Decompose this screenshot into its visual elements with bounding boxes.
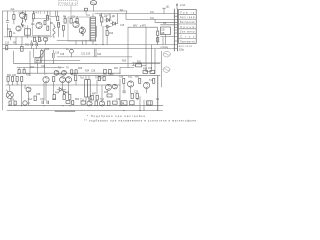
- wire bottom verticals: [8, 79, 147, 111]
- resistor R38: [96, 95, 98, 100]
- resistor R14: [157, 27, 159, 44]
- transformer T3 core: [91, 19, 96, 39]
- resistor R19: [23, 68, 25, 74]
- transistor Q1: [20, 11, 26, 22]
- svg-text:С21 0,05: С21 0,05: [81, 54, 91, 56]
- transistor Q16: [99, 101, 104, 106]
- svg-text:к АРУ: к АРУ: [140, 25, 147, 28]
- transformer T3 leads: [92, 14, 94, 45]
- resistor R22: [104, 69, 107, 74]
- transistor Q5: [58, 23, 65, 31]
- resistor R25: [150, 70, 155, 73]
- wire feedback: [132, 62, 161, 64]
- selector leads: [161, 35, 175, 45]
- resistor R54: [46, 11, 48, 20]
- resistor R6: [34, 37, 36, 41]
- selector box: [161, 27, 171, 35]
- transistor Q4: [43, 37, 47, 41]
- transformer T2 secondary coil: [81, 27, 83, 37]
- wire top cluster stubs: [50, 11, 56, 17]
- svg-text:R25: R25: [78, 68, 83, 70]
- resistor R26: [7, 77, 9, 82]
- resistor R23: [109, 69, 112, 74]
- transistor Q14: [144, 82, 150, 88]
- coil L4: [21, 21, 23, 28]
- svg-text:R47: R47: [92, 94, 97, 96]
- fuse box: [130, 101, 135, 105]
- svg-text:С25: С25: [148, 68, 153, 70]
- svg-text:** подбирают при налаживании в: ** подбирают при налаживании в усилителе…: [84, 118, 197, 122]
- resistor R36: [153, 79, 155, 84]
- svg-text:Т2: Т2: [23, 27, 26, 29]
- wire af bus 2: [40, 60, 80, 62]
- crystal Y1: [70, 49, 74, 57]
- resistor R50: [108, 101, 110, 106]
- transistor Q8: [43, 77, 49, 101]
- annotation oval A: [163, 51, 170, 57]
- resistor R13: [101, 14, 103, 27]
- svg-text:R52: R52: [75, 99, 80, 101]
- resistor R31: [75, 76, 77, 81]
- resistor R32: [98, 76, 100, 80]
- resistor R28: [16, 77, 18, 82]
- resistor R44: [9, 101, 11, 105]
- resistor R20: [71, 70, 73, 74]
- cap C8 pair: [36, 41, 37, 49]
- resistor R11: [70, 16, 72, 23]
- svg-text:R20: R20: [122, 61, 127, 63]
- svg-text:С22: С22: [97, 54, 102, 56]
- cap C34 pair: [47, 101, 48, 104]
- loudspeaker B1: [6, 85, 13, 99]
- svg-text:Т12: Т12: [149, 80, 154, 82]
- transistor Q6: [54, 70, 59, 75]
- wire lower bus A: [17, 72, 120, 74]
- svg-text:С37: С37: [40, 99, 45, 101]
- svg-text:Прием: Прием: [180, 27, 194, 29]
- wire top border: [3, 11, 128, 14]
- wire vertical V3: [146, 45, 152, 72]
- wire stair left: [14, 51, 31, 76]
- resistor R2: [25, 11, 27, 22]
- svg-text:R17: R17: [30, 67, 35, 69]
- transistor Q15: [87, 101, 92, 106]
- svg-text:R37: R37: [110, 74, 115, 76]
- wire vertical V2: [145, 27, 147, 71]
- svg-text:L1: L1: [13, 33, 16, 35]
- resistor R39 horizontal: [107, 94, 112, 97]
- svg-text:к блоку: к блоку: [161, 47, 170, 49]
- resistor R51 horizontal: [113, 101, 118, 104]
- connector rungs: [174, 14, 177, 49]
- diode ring: [106, 15, 111, 20]
- wire output rail: [157, 76, 159, 111]
- trimmer cap: [85, 8, 88, 13]
- svg-text:АРУ: АРУ: [133, 25, 138, 28]
- svg-text:Тр1: Тр1: [86, 15, 91, 17]
- svg-text:R40: R40: [135, 77, 140, 79]
- svg-text:С12: С12: [5, 43, 10, 45]
- wire vertical V1: [127, 27, 129, 67]
- svg-text:СВ: СВ: [163, 23, 167, 25]
- resistor R33: [103, 76, 105, 80]
- resistor R52: [106, 26, 114, 45]
- diode D1: [105, 18, 112, 22]
- connector cable right line: [177, 9, 179, 51]
- resistor R10: [64, 16, 66, 23]
- transistor type note box: [59, 1, 78, 6]
- transistor Q18: [25, 85, 31, 106]
- resistor R17 horizontal: [132, 64, 146, 67]
- wire links: [120, 63, 134, 73]
- connector cable left line: [173, 9, 175, 51]
- svg-text:R48: R48: [104, 92, 109, 94]
- svg-text:Кн2: Кн2: [28, 99, 33, 101]
- resistor R48 horizontal: [81, 101, 86, 104]
- cap C30: [131, 93, 133, 98]
- motor box: [147, 101, 153, 105]
- transistor Q2: [32, 19, 50, 36]
- svg-text:С40: С40: [116, 99, 121, 101]
- resistor R40: [34, 96, 36, 100]
- wire emitter bus: [6, 84, 120, 86]
- wire supply bus B: [3, 48, 175, 50]
- svg-text:Стоп: Стоп: [180, 36, 195, 38]
- wire lower bus B: [78, 75, 160, 77]
- wire verticals top clusters: [16, 26, 103, 57]
- transistor Q13: [128, 81, 134, 87]
- wire agc line: [128, 26, 157, 28]
- svg-text:Воспроизв: Воспроизв: [180, 22, 195, 24]
- IF transformer L5 box: [34, 49, 41, 74]
- cap C31: [136, 93, 138, 98]
- resistor R5: [9, 29, 11, 41]
- wire second bus: [126, 14, 174, 20]
- resistor R42: [63, 95, 65, 100]
- svg-text:С28: С28: [91, 71, 96, 73]
- svg-text:Перемотка: Перемотка: [180, 41, 195, 43]
- jack lead: [93, 5, 95, 11]
- resistor R4: [44, 21, 49, 31]
- switch SB1: [23, 101, 30, 105]
- switch table row lines: [179, 14, 197, 38]
- wire vertical V4: [152, 49, 155, 74]
- resistor R34: [123, 79, 125, 84]
- resistor R9: [73, 21, 86, 33]
- svg-text:вкл.сети: вкл.сети: [179, 46, 193, 48]
- svg-text:С14: С14: [38, 41, 43, 43]
- svg-text:R45: R45: [65, 93, 70, 95]
- wire top bus: [95, 13, 174, 15]
- wire left border: [2, 11, 4, 110]
- resistor R3: [33, 11, 35, 22]
- cap C10: [53, 50, 60, 63]
- svg-text:10к: 10к: [31, 24, 36, 26]
- resistor R8: [68, 17, 90, 41]
- IF transformer L1 box: [25, 26, 31, 39]
- wire mid bus: [14, 62, 161, 64]
- svg-text:С33: С33: [134, 92, 139, 94]
- wire v x96: [96, 26, 98, 37]
- svg-text:Ш1: Ш1: [166, 7, 170, 9]
- cap C7 pair: [31, 41, 32, 49]
- diode D3: [105, 25, 111, 28]
- svg-text:Кн: Кн: [66, 49, 69, 51]
- svg-text:R50: R50: [10, 99, 15, 101]
- svg-text:R2: R2: [7, 29, 11, 31]
- wire bottom rail: [8, 105, 163, 107]
- svg-text:* Подобрано при настройке: * Подобрано при настройке: [87, 114, 146, 118]
- resistor R29: [21, 77, 23, 106]
- annotation oval B: [163, 67, 170, 72]
- resistor R47: [72, 101, 74, 105]
- note lead: [70, 5, 72, 16]
- svg-text:R38: R38: [119, 77, 124, 79]
- wire vertical V5: [161, 51, 163, 87]
- svg-text:Т9 Т10: Т9 Т10: [95, 78, 103, 80]
- svg-text:Т5: Т5: [58, 68, 61, 70]
- svg-text:к Гн2: к Гн2: [180, 5, 186, 7]
- wire rect vertical: [110, 14, 118, 24]
- svg-text:С32: С32: [122, 92, 127, 94]
- svg-text:ГТ402Г,Б-2: ГТ402Г,Б-2: [59, 3, 77, 5]
- resistor R15: [21, 45, 24, 52]
- pin post: [163, 8, 166, 13]
- transistor Q9: [60, 77, 66, 88]
- resistor R7: [38, 37, 40, 41]
- svg-text:С36: С36: [36, 94, 41, 96]
- svg-text:Зап.грам: Зап.грам: [180, 17, 195, 19]
- svg-text:П402-2: П402-2: [33, 12, 46, 14]
- svg-text:Т7: Т7: [44, 74, 47, 76]
- diode D4: [57, 88, 66, 92]
- resistor R24: [143, 70, 148, 73]
- wire bottom border: [7, 110, 163, 112]
- transistor Q11: [105, 84, 111, 90]
- wire mid horizontal: [4, 37, 96, 41]
- volume pot: [39, 49, 45, 64]
- svg-text:ДВ: ДВ: [161, 33, 165, 35]
- cap C33 pair: [42, 101, 43, 104]
- svg-text:Зап.микр: Зап.микр: [180, 32, 195, 34]
- wire af bus: [57, 56, 132, 58]
- transistor Q7: [62, 70, 67, 75]
- transformer T3 primary coil: [91, 17, 96, 41]
- diode D2: [111, 22, 118, 26]
- resistor R37: [91, 95, 93, 100]
- resistor R16: [6, 46, 8, 50]
- svg-text:R28: R28: [143, 68, 148, 70]
- resistor R46 horizontal: [66, 101, 70, 104]
- resistor R18: [18, 68, 20, 74]
- svg-text:Т11: Т11: [128, 77, 133, 79]
- svg-text:Т14: Т14: [100, 99, 105, 101]
- svg-text:9в: 9в: [122, 103, 125, 105]
- junction dots: [21, 44, 140, 111]
- svg-text:Тр3: Тр3: [80, 78, 85, 80]
- wire v x94: [94, 49, 96, 57]
- svg-text:С15: С15: [120, 25, 125, 27]
- svg-text:R21: R21: [137, 62, 142, 64]
- resistor R45: [14, 101, 16, 105]
- wire to strip B: [161, 24, 175, 26]
- resistor R12: [76, 16, 78, 23]
- cap C2 pair: [6, 11, 9, 37]
- antenna arrow: [176, 4, 178, 9]
- svg-text:Пр: Пр: [136, 99, 140, 101]
- resistor R21: [75, 70, 77, 74]
- battery box: [121, 101, 127, 105]
- coil L2: [53, 24, 55, 38]
- wire v x44: [43, 49, 45, 74]
- resistor R27: [12, 77, 14, 82]
- resistor R41: [53, 95, 55, 100]
- svg-text:R27: R27: [114, 68, 119, 70]
- transistor Q3: [16, 26, 21, 31]
- svg-text:Д9: Д9: [112, 16, 116, 18]
- wire right link: [17, 67, 134, 69]
- svg-text:R32: R32: [26, 75, 31, 77]
- diode D5: [64, 91, 67, 94]
- svg-text:R6: R6: [50, 23, 54, 25]
- border emphasis: [55, 110, 75, 112]
- svg-text:СВ: СВ: [161, 29, 165, 31]
- resistor R1: [13, 11, 15, 24]
- svg-text:Т6: Т6: [66, 68, 69, 70]
- jack oval: [90, 1, 97, 5]
- svg-text:С18: С18: [60, 54, 65, 56]
- svg-text:R35: R35: [71, 74, 76, 76]
- resistor R30: [53, 77, 55, 95]
- svg-text:Д1: Д1: [104, 16, 108, 18]
- resistor R55: [57, 11, 59, 21]
- svg-text:С16: С16: [41, 66, 46, 68]
- svg-text:R31 С40: R31 С40: [7, 75, 17, 77]
- svg-text:Прм гр: Прм гр: [180, 12, 195, 14]
- svg-text:R24: R24: [85, 71, 90, 73]
- switch table frame: [179, 10, 197, 44]
- svg-text:R13: R13: [109, 33, 114, 35]
- svg-text:R44: R44: [55, 93, 60, 95]
- wire supply bus A: [3, 44, 175, 46]
- svg-text:220в: 220в: [179, 49, 185, 51]
- svg-text:С38: С38: [52, 99, 57, 101]
- resistor R53: [157, 38, 159, 42]
- transistor Q12: [113, 84, 118, 89]
- resistor R35: [139, 79, 141, 84]
- svg-text:R15: R15: [45, 49, 50, 51]
- svg-text:Т8: Т8: [59, 74, 62, 76]
- resistor R43: [69, 95, 71, 100]
- output transformer T4: [85, 76, 91, 101]
- wire to strip A: [155, 20, 174, 23]
- jack squiggle: [91, 2, 96, 3]
- resistor R49: [95, 101, 97, 106]
- svg-text:М1: М1: [156, 99, 160, 101]
- transistor Q10: [66, 77, 72, 95]
